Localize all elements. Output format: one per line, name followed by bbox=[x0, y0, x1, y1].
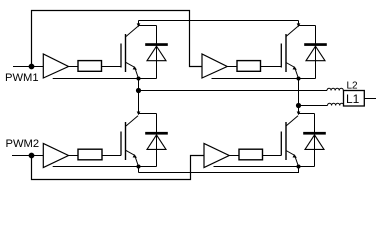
wire Q4 emitter line / U4 feedback bbox=[214, 166, 315, 168]
transistor Q1 IGBT top-left: gate bar bbox=[120, 44, 122, 68]
transistor Q2 collector lead bbox=[126, 116, 138, 126]
resistor R3 gate resistor bbox=[78, 149, 102, 160]
wire U1 output to R1 bbox=[69, 66, 79, 68]
transistor Q4 emitter lead bbox=[286, 151, 299, 167]
svg-text:L2: L2 bbox=[347, 81, 359, 92]
wire R3 to Q2 gate bbox=[102, 155, 121, 157]
diode D1 cathode bar bbox=[145, 43, 168, 46]
transistor Q1 body bar bbox=[125, 34, 127, 72]
op-amp U2 driver top-right bbox=[202, 54, 227, 78]
wire R4 to Q4 gate bbox=[263, 155, 282, 157]
label L1 box bbox=[344, 91, 365, 107]
transistor Q4 collector lead bbox=[286, 116, 298, 126]
wire D3 through vertical bbox=[315, 26, 317, 79]
node PWM2 (junction dot) bbox=[29, 153, 35, 159]
transistor Q2 IGBT bottom-left: gate bar bbox=[120, 132, 122, 156]
wire top collector bus Q1-Q3 bbox=[139, 20, 299, 22]
resistor R4 gate resistor bbox=[239, 149, 263, 160]
node Q1 collector arrow bbox=[137, 23, 141, 27]
inductor L2 coil bbox=[327, 88, 343, 90]
transistor Q1 collector lead bbox=[126, 26, 138, 36]
wire D1 through vertical bbox=[156, 26, 158, 79]
transistor Q3 IGBT top-right: gate bar bbox=[280, 44, 282, 68]
node Q1 emitter bbox=[137, 77, 141, 81]
node Q2 emitter bbox=[137, 165, 141, 169]
transistor Q4 body bar bbox=[285, 122, 287, 160]
wire PWM2 rail: node down, across bottom, up to driver U4 input bbox=[32, 156, 205, 180]
wire bus drop to Q1 collector bbox=[138, 21, 140, 25]
wire Q4 collector to D4 bbox=[299, 113, 315, 115]
wire center bus drop to Q2 collector bbox=[138, 91, 140, 113]
op-amp U1 driver top-left bbox=[43, 54, 68, 78]
diode D4 cathode bar bbox=[303, 132, 326, 135]
node Q3 collector arrow bbox=[297, 23, 301, 27]
wire R2 to Q3 gate bbox=[261, 66, 282, 68]
resistor R1 gate resistor bbox=[78, 61, 102, 72]
node center bus left (junction dot) bbox=[136, 88, 141, 93]
op-amp U4 driver bottom-right bbox=[204, 144, 229, 168]
wire phase B to L1 bbox=[299, 105, 328, 107]
transistor Q3 emitter lead bbox=[286, 63, 299, 79]
svg-text:L1: L1 bbox=[346, 92, 360, 106]
resistor R2 gate resistor bbox=[237, 61, 261, 72]
svg-text:PWM1: PWM1 bbox=[5, 72, 39, 84]
transistor Q2 emitter lead bbox=[126, 151, 139, 167]
svg-text:PWM2: PWM2 bbox=[6, 138, 40, 150]
transistor Q1 emitter lead bbox=[126, 63, 139, 79]
transistor Q2 body bar bbox=[125, 122, 127, 160]
wire phase B vertical Q3 emitter to Q4 collector bbox=[298, 79, 300, 114]
wire PWM1 input stub bbox=[13, 66, 43, 68]
wire Q2 emitter drop bbox=[138, 167, 140, 173]
inductor L1 coil bbox=[328, 103, 344, 105]
transistor Q4 IGBT bottom-right: gate bar bbox=[280, 132, 282, 156]
node Q4 emitter bbox=[297, 165, 301, 169]
transistor Q2 emitter arrow bbox=[133, 154, 137, 158]
diode D4 triangle bbox=[305, 135, 324, 150]
wire PWM2 input stub bbox=[12, 155, 43, 157]
wire Q3 collector to D3 bbox=[299, 25, 316, 27]
wire U4 output to R4 bbox=[229, 155, 239, 157]
diode D3 cathode bar bbox=[304, 43, 327, 46]
transistor Q4 emitter arrow bbox=[293, 154, 297, 158]
op-amp U3 driver bottom-left bbox=[43, 144, 68, 168]
diode D2 triangle bbox=[147, 135, 166, 150]
wire center bus to L2 bbox=[139, 90, 328, 92]
transistor Q3 collector lead bbox=[286, 26, 298, 36]
wire D4 through vertical bbox=[314, 114, 316, 167]
wire PWM1 rail: node up, across top, down to driver U2 input bbox=[32, 11, 203, 67]
wire U2 output to R2 bbox=[227, 66, 237, 68]
wire phase B drop to Q4 collector bbox=[298, 106, 300, 113]
diode D1 triangle bbox=[147, 46, 166, 61]
wire bottom mid bus Q2 emitter to Q4 emitter bbox=[139, 167, 299, 173]
node Q4 collector arrow bbox=[297, 112, 301, 116]
transistor Q3 emitter arrow bbox=[293, 66, 297, 70]
transistor Q1 emitter arrow bbox=[133, 66, 137, 70]
node Q2 collector arrow bbox=[137, 112, 141, 116]
wire Q1 collector to D1 bbox=[139, 25, 157, 27]
wire Q2 emitter line / U3 feedback bbox=[53, 166, 157, 168]
wire bus drop to Q3 collector bbox=[298, 21, 300, 25]
wire output stub bbox=[365, 98, 377, 100]
wire Q1 emitter to center bus bbox=[138, 79, 140, 91]
wire U3 output to R3 bbox=[69, 155, 79, 157]
wire Q1 emitter line / U1 feedback bbox=[53, 78, 157, 80]
node phase B output (junction dot) bbox=[296, 103, 301, 108]
diode D3 triangle bbox=[306, 46, 325, 61]
wire Q2 collector to D2 bbox=[139, 113, 157, 115]
node Q3 emitter bbox=[297, 77, 301, 81]
diode D2 cathode bar bbox=[145, 132, 168, 135]
wire Q3 emitter line / U2 feedback bbox=[212, 78, 316, 80]
wire R1 to Q1 gate bbox=[102, 66, 122, 68]
transistor Q3 body bar bbox=[285, 34, 287, 72]
wire D2 through vertical bbox=[156, 114, 158, 167]
node PWM1 (junction dot) bbox=[29, 64, 35, 70]
